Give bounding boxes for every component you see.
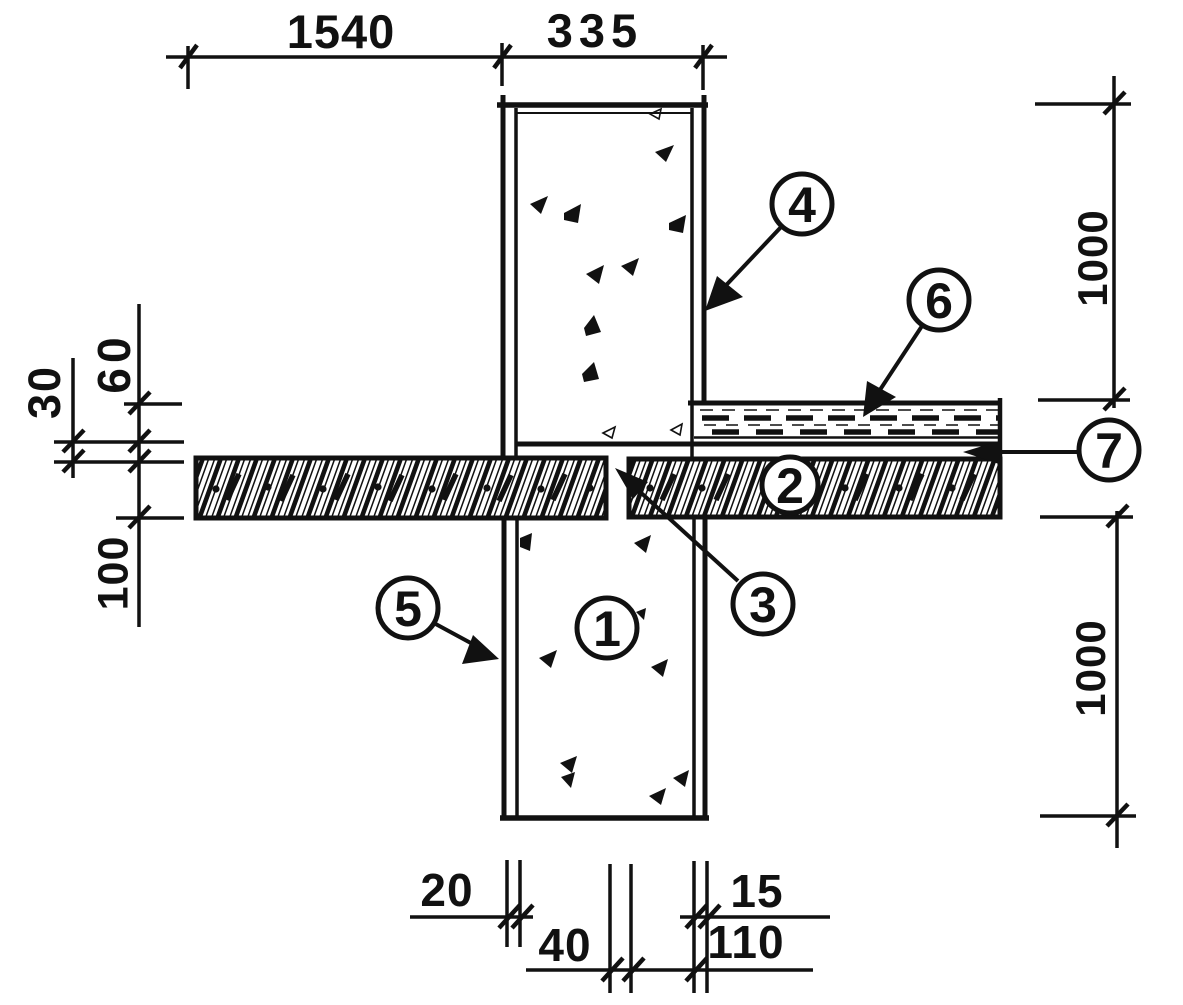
column top inner thin line [516, 112, 692, 114]
svg-text:1000: 1000 [1069, 209, 1116, 306]
heavy chain dashes mid-height of right slab [662, 474, 974, 500]
top dimension line [166, 55, 727, 59]
dim line 40 110 [526, 968, 813, 972]
left main dim line [137, 304, 141, 627]
chain dots in right slab [646, 484, 955, 491]
svg-text:20: 20 [420, 864, 473, 916]
svg-text:1540: 1540 [287, 5, 396, 58]
chain dots in left slab [212, 483, 593, 492]
extension pair at column left wall [505, 860, 509, 947]
circle label 2 [762, 457, 818, 514]
dim line 15 [680, 915, 830, 919]
svg-text:1: 1 [593, 601, 621, 657]
concrete speckles in upper column [530, 145, 686, 382]
column left outer wall lower [502, 520, 507, 820]
band bottom edge [694, 436, 1001, 439]
joint line inside column at slab seat level [516, 442, 1001, 447]
band top edge [688, 401, 1001, 406]
column bottom edge [500, 815, 709, 821]
dim line 20 [410, 915, 533, 919]
circle label 4 with leader [705, 174, 832, 311]
circle label 1 [577, 598, 637, 658]
svg-text:30: 30 [19, 365, 70, 419]
circle label 5 with leader [378, 578, 499, 664]
extension at slab bottom [116, 516, 184, 520]
thin sketchy dashes [700, 409, 998, 411]
svg-text:2: 2 [776, 458, 804, 514]
svg-text:1000: 1000 [1067, 619, 1114, 716]
extension at slab top [54, 460, 184, 464]
tick at x188 [186, 46, 190, 89]
svg-text:40: 40 [538, 919, 591, 971]
extension at joint level [54, 440, 184, 444]
column right inner wall upper [690, 108, 694, 458]
svg-text:5: 5 [394, 581, 422, 637]
extension pair at slab gap [608, 864, 612, 993]
column top edge [497, 102, 708, 108]
circle label 3 with leader [615, 468, 793, 634]
svg-text:15: 15 [730, 865, 783, 917]
svg-text:100: 100 [89, 536, 137, 611]
column left inner wall upper [514, 108, 518, 457]
right dim line upper 1000 [1112, 76, 1116, 408]
right dim line lower 1000 [1115, 511, 1119, 848]
extension pair at column right wall [692, 861, 696, 993]
svg-text:4: 4 [788, 177, 816, 233]
column left inner wall lower [515, 520, 519, 818]
extension at band top [124, 402, 182, 406]
svg-text:60: 60 [88, 332, 140, 393]
svg-text:7: 7 [1095, 423, 1123, 479]
circle label 7 with leader [963, 420, 1139, 480]
circle label 6 with leader [863, 270, 969, 417]
column left outer wall upper [501, 95, 506, 457]
svg-text:335: 335 [547, 4, 643, 57]
small open speckles near joint [603, 109, 682, 438]
heavy chain dashes mid-height of left slab [227, 474, 565, 501]
svg-text:110: 110 [707, 916, 784, 968]
concrete speckles in lower column [520, 533, 689, 805]
column right outer wall upper [702, 95, 707, 405]
right slab hatched body [629, 459, 1000, 517]
tick at x502 [500, 43, 504, 86]
left secondary dim line [71, 358, 75, 478]
heavy dashes row 2 [712, 429, 998, 435]
svg-text:3: 3 [749, 577, 777, 633]
column right inner wall lower [692, 518, 696, 818]
heavy dashes row 1 [702, 415, 998, 421]
svg-text:6: 6 [925, 273, 953, 329]
column right outer wall lower [703, 518, 708, 820]
band/slab right edge [998, 398, 1003, 519]
left slab hatched body [196, 458, 606, 518]
tick at x703 [701, 45, 705, 90]
